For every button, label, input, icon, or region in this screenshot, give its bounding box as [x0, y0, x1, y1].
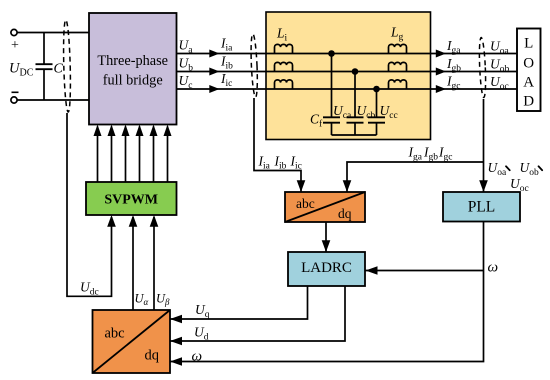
wire abc-dq to LADRC [322, 222, 331, 252]
wire cap branch b [354, 72, 356, 118]
block LCL filter (yellow) [266, 12, 431, 140]
svg-text:abc: abc [105, 326, 125, 342]
node phase b tap [352, 68, 359, 75]
inductor L_i phase a [275, 44, 293, 53]
node phase c tap [373, 86, 380, 93]
wire phase a inside filter [266, 53, 517, 55]
svg-text:SVPWM: SVPWM [104, 193, 158, 208]
capacitor C [36, 33, 53, 101]
block Three-phase full bridge U1 [89, 13, 177, 125]
block LOAD [517, 29, 541, 112]
svg-text:full bridge: full bridge [103, 73, 163, 89]
label - [12, 91, 19, 93]
block LADRC [288, 252, 365, 286]
wire capacitor common bus [332, 134, 377, 136]
wire DC bus top [17, 32, 89, 34]
inductor L_g phase b [389, 62, 407, 71]
svg-text:dq: dq [145, 348, 160, 364]
wire gate signal 6 [164, 125, 172, 183]
wire omega to transform [170, 222, 484, 366]
wire U_beta to SVPWM [150, 215, 159, 310]
wire cap branch c [376, 89, 378, 117]
inductor L_g phase a [389, 44, 407, 53]
wire U_alpha to SVPWM [129, 215, 138, 310]
wire grid current branch to abc-dq [343, 162, 484, 192]
svg-text:ω: ω [192, 349, 203, 365]
wire grid sense to PLL [479, 99, 488, 192]
svg-text:ω: ω [488, 260, 499, 276]
capacitor C_f phase c [368, 117, 385, 135]
inductor L_g phase c [389, 80, 407, 89]
wire phase c inside filter [266, 88, 517, 90]
svg-text:A: A [523, 75, 534, 91]
svg-text:PLL: PLL [468, 199, 496, 216]
arrow phase a to load [436, 50, 446, 58]
wire U_q LADRC to transform [170, 286, 308, 323]
svg-text:abc: abc [296, 196, 315, 211]
node phase a tap [328, 50, 335, 57]
wire omega PLL to LADRC [365, 266, 484, 275]
svg-text:L: L [524, 36, 533, 52]
arrow phase c to load [436, 85, 446, 93]
block abc-dq voltage transform [93, 310, 171, 373]
wire gate signal 2 [108, 125, 116, 183]
sensor dashed inverter current measurement [250, 34, 258, 97]
wire phase b bridge to filter [177, 68, 267, 76]
sensor dashed grid measurement [478, 37, 486, 97]
wire DC bus bottom [17, 99, 89, 101]
capacitor C_f phase b [347, 117, 364, 135]
wire U_dc feedback [67, 113, 112, 296]
block SVPWM [86, 182, 177, 215]
arrow phase b to load [436, 68, 446, 76]
wire phase b inside filter [266, 71, 517, 73]
DC source negative terminal [11, 97, 17, 103]
wire cap branch a [331, 54, 333, 118]
svg-text:D: D [523, 94, 534, 110]
block PLL [443, 192, 520, 222]
wire gate signal 3 [122, 125, 130, 183]
sensor dashed U_dc measurement [63, 20, 72, 112]
inductor L_i phase c [275, 80, 293, 89]
svg-text:O: O [523, 56, 534, 72]
svg-text:+: + [11, 38, 19, 53]
svg-text:dq: dq [338, 206, 352, 221]
wire phase a bridge to filter [177, 50, 267, 58]
block abc-dq current transform [285, 192, 365, 222]
svg-text:C: C [54, 62, 64, 77]
wire phase c bridge to filter [177, 85, 267, 93]
inductor L_i phase b [275, 62, 293, 71]
wire gate signal 5 [150, 125, 158, 183]
wire gate signal 4 [136, 125, 144, 183]
DC source positive terminal [11, 29, 17, 35]
svg-text:Three-phase: Three-phase [97, 53, 168, 69]
wire inverter current sense to abc-dq [254, 98, 305, 192]
svg-text:LADRC: LADRC [301, 260, 352, 276]
capacitor C_f phase a [323, 117, 340, 135]
wire U_d LADRC to transform [170, 286, 345, 345]
wire gate signal 1 [94, 125, 102, 183]
